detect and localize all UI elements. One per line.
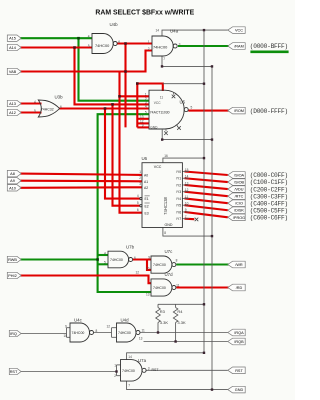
- svg-text:/Y0: /Y0: [176, 170, 181, 174]
- svg-text:4: 4: [104, 251, 106, 255]
- svg-text:14: 14: [128, 355, 132, 359]
- svg-text:A0: A0: [144, 173, 148, 177]
- svg-text:RST: RST: [235, 369, 243, 373]
- svg-text:A9: A9: [10, 179, 15, 183]
- svg-text:5: 5: [104, 261, 106, 265]
- svg-text:16: 16: [164, 154, 168, 158]
- svg-text:A8: A8: [10, 172, 15, 176]
- svg-text:6: 6: [118, 40, 120, 44]
- svg-text:GND: GND: [235, 388, 244, 392]
- svg-text:(C200-C2FF): (C200-C2FF): [250, 186, 288, 193]
- svg-text:6: 6: [137, 208, 139, 212]
- svg-text:VAB: VAB: [9, 70, 17, 74]
- svg-text:8: 8: [96, 329, 98, 333]
- svg-text:(0000-BFFF): (0000-BFFF): [250, 43, 288, 50]
- svg-text:7: 7: [128, 384, 130, 388]
- svg-text:4: 4: [137, 194, 139, 198]
- svg-text:5: 5: [191, 106, 193, 110]
- svg-text:/SIOB: /SIOB: [234, 181, 245, 185]
- svg-text:9: 9: [65, 324, 67, 328]
- svg-text:12: 12: [107, 324, 111, 328]
- svg-text:13: 13: [146, 293, 150, 297]
- svg-text:RST: RST: [152, 368, 160, 372]
- svg-text:(C400-C4FF): (C400-C4FF): [250, 200, 288, 207]
- svg-text:/RTC: /RTC: [235, 195, 244, 199]
- svg-text:VCC: VCC: [154, 165, 162, 169]
- svg-text:(C500-C5FF): (C500-C5FF): [250, 207, 288, 214]
- svg-text:14: 14: [185, 175, 189, 179]
- svg-text:3: 3: [179, 42, 181, 46]
- svg-text:A13: A13: [9, 102, 16, 106]
- svg-text:/VDU: /VDU: [234, 188, 243, 192]
- svg-text:(C000-C0FF): (C000-C0FF): [250, 172, 288, 179]
- svg-text:5: 5: [34, 109, 36, 113]
- svg-text:13: 13: [139, 337, 143, 341]
- svg-text:IRQA: IRQA: [234, 331, 244, 335]
- svg-text:10: 10: [185, 202, 189, 206]
- svg-text:/SIOA: /SIOA: [234, 173, 245, 177]
- svg-text:/Y7: /Y7: [176, 217, 181, 221]
- svg-text:A12: A12: [9, 111, 16, 115]
- svg-text:7: 7: [185, 215, 187, 219]
- svg-text:(C100-C1FF): (C100-C1FF): [250, 179, 288, 186]
- svg-text:E1: E1: [145, 197, 149, 201]
- svg-text:74HC00: 74HC00: [153, 263, 166, 267]
- svg-text:5: 5: [137, 201, 139, 205]
- svg-text:/Y3: /Y3: [176, 190, 181, 194]
- svg-text:IRQB: IRQB: [234, 340, 244, 344]
- svg-text:RAM SELECT $BFxx w/WRITE: RAM SELECT $BFxx w/WRITE: [95, 9, 194, 16]
- svg-text:74HC138: 74HC138: [163, 196, 168, 214]
- svg-text:A14: A14: [9, 46, 16, 50]
- svg-text:74HC00: 74HC00: [153, 286, 166, 290]
- svg-text:/Y6: /Y6: [176, 210, 181, 214]
- svg-text:2: 2: [139, 176, 141, 180]
- svg-text:12: 12: [136, 270, 140, 274]
- svg-text:3: 3: [148, 366, 150, 370]
- svg-text:10: 10: [64, 334, 68, 338]
- svg-text:74HC00: 74HC00: [95, 43, 110, 48]
- svg-text:A2: A2: [144, 186, 148, 190]
- svg-text:/DISK: /DISK: [234, 209, 244, 213]
- svg-text:/ROM: /ROM: [234, 109, 244, 113]
- svg-text:4: 4: [88, 35, 90, 39]
- svg-text:74HC00: 74HC00: [118, 331, 131, 335]
- svg-text:/RD: /RD: [236, 286, 243, 290]
- svg-text:1: 1: [145, 93, 147, 97]
- svg-text:U4c: U4c: [74, 318, 83, 323]
- svg-text:3: 3: [139, 182, 141, 186]
- svg-text:/CIO: /CIO: [235, 202, 243, 206]
- svg-text:VCC: VCC: [154, 101, 161, 105]
- svg-text:2: 2: [148, 47, 150, 51]
- svg-text:11: 11: [160, 95, 164, 99]
- svg-text:6: 6: [134, 256, 136, 260]
- svg-text:74HC00: 74HC00: [122, 369, 135, 373]
- svg-text:E2: E2: [145, 204, 149, 208]
- svg-text:R4: R4: [177, 309, 183, 314]
- svg-text:U5: U5: [180, 100, 186, 105]
- svg-text:13: 13: [185, 181, 189, 185]
- svg-text:U4d: U4d: [121, 318, 130, 323]
- svg-text:U6: U6: [142, 156, 148, 161]
- svg-text:1: 1: [148, 40, 150, 44]
- svg-text:11: 11: [142, 328, 146, 332]
- svg-text:U4a: U4a: [170, 29, 179, 34]
- svg-text:RWB: RWB: [8, 258, 17, 262]
- svg-text:9: 9: [148, 256, 150, 260]
- svg-text:4: 4: [34, 100, 36, 104]
- svg-text:8: 8: [164, 231, 166, 235]
- svg-text:A1: A1: [144, 180, 148, 184]
- svg-text:5: 5: [88, 44, 90, 48]
- svg-text:14: 14: [156, 29, 160, 33]
- svg-text:11: 11: [185, 195, 189, 199]
- svg-text:A10: A10: [9, 186, 16, 190]
- svg-text:GND: GND: [150, 126, 158, 130]
- svg-text:2: 2: [114, 374, 116, 378]
- svg-text:/WR: /WR: [235, 263, 243, 267]
- svg-text:(C300-C3FF): (C300-C3FF): [250, 193, 288, 200]
- svg-text:10: 10: [146, 266, 150, 270]
- svg-text:6: 6: [60, 105, 62, 109]
- svg-text:8: 8: [176, 259, 178, 263]
- svg-text:4: 4: [145, 105, 147, 109]
- svg-text:3.3K: 3.3K: [160, 320, 169, 325]
- svg-text:13: 13: [140, 115, 144, 119]
- svg-text:U7b: U7b: [126, 245, 135, 250]
- svg-text:74HC00: 74HC00: [72, 331, 85, 335]
- svg-text:RST: RST: [10, 370, 18, 374]
- svg-text:A15: A15: [9, 37, 16, 41]
- svg-text:74HC00: 74HC00: [110, 258, 123, 262]
- svg-text:U3b: U3b: [55, 95, 64, 100]
- svg-text:IRQ: IRQ: [10, 332, 17, 336]
- svg-text:74HC32: 74HC32: [41, 108, 54, 112]
- svg-text:U7a: U7a: [138, 358, 147, 363]
- svg-text:9: 9: [142, 124, 144, 128]
- svg-text:/Y4: /Y4: [176, 197, 181, 201]
- svg-text:3.3K: 3.3K: [177, 320, 186, 325]
- svg-text:(D000-FFFF): (D000-FFFF): [250, 108, 288, 115]
- svg-text:R3: R3: [160, 309, 166, 314]
- svg-text:15: 15: [185, 168, 189, 172]
- svg-text:9: 9: [185, 208, 187, 212]
- svg-text:U7d: U7d: [165, 272, 174, 277]
- svg-text:74HC00: 74HC00: [153, 45, 168, 50]
- svg-text:VCC: VCC: [235, 29, 243, 33]
- svg-text:7: 7: [163, 57, 165, 61]
- svg-text:/Y5: /Y5: [176, 204, 181, 208]
- svg-text:74ACT11030: 74ACT11030: [150, 110, 170, 114]
- svg-text:U7c: U7c: [165, 249, 174, 254]
- svg-text:11: 11: [176, 283, 180, 287]
- svg-text:5: 5: [145, 110, 147, 114]
- svg-text:/PROG: /PROG: [233, 216, 245, 220]
- svg-text:/Y2: /Y2: [176, 183, 181, 187]
- svg-text:1: 1: [139, 170, 141, 174]
- svg-text:1: 1: [114, 363, 116, 367]
- svg-text:(C600-C6FF): (C600-C6FF): [250, 215, 288, 222]
- svg-text:GND: GND: [165, 223, 173, 227]
- svg-text:U4b: U4b: [110, 22, 119, 27]
- svg-text:PHI2: PHI2: [8, 274, 16, 278]
- svg-text:E3: E3: [145, 211, 149, 215]
- svg-text:/Y1: /Y1: [176, 177, 181, 181]
- svg-text:/RAM: /RAM: [234, 44, 244, 48]
- svg-text:12: 12: [185, 188, 189, 192]
